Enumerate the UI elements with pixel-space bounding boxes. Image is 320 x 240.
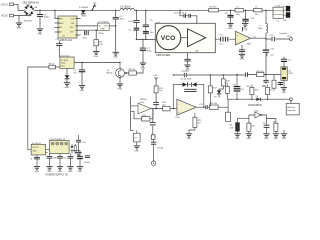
svg-text:40u: 40u: [236, 14, 239, 16]
op-amp U4: [236, 31, 251, 45]
capacitor C23: [280, 82, 282, 86]
svg-text:GND: GND: [78, 171, 83, 173]
svg-text:DB1 KBP06 4A: DB1 KBP06 4A: [23, 1, 40, 4]
capacitor C6 column: [145, 10, 146, 11]
resistor R19: [219, 75, 223, 90]
ground G24: [67, 167, 73, 170]
wire 12V rail mid: [74, 62, 120, 64]
svg-text:R5 47k: R5 47k: [210, 7, 218, 9]
svg-text:R27: R27: [252, 125, 255, 127]
main rail wire: [34, 9, 273, 11]
capacitor C14 below box: [187, 53, 189, 65]
resistor R5: [209, 9, 219, 12]
capacitor CB2: [47, 156, 53, 158]
svg-text:R26: R26: [262, 86, 265, 88]
capacitor CL1 column: [78, 135, 80, 152]
svg-text:1M: 1M: [273, 122, 276, 124]
bridge rectifier DB1: [24, 4, 34, 16]
svg-text:78L05: 78L05: [98, 33, 105, 35]
svg-text:R25: R25: [247, 86, 250, 88]
svg-text:GND: GND: [80, 90, 85, 92]
wire IC1 out: [109, 25, 116, 27]
pot CR1: [235, 122, 239, 131]
svg-text:GND: GND: [68, 171, 73, 173]
inductor L5: [235, 9, 244, 12]
resistor R22: [124, 72, 128, 74]
svg-text:GND: GND: [281, 92, 286, 94]
capacitor C11: [58, 41, 60, 57]
svg-text:GND: GND: [134, 150, 139, 152]
ground G5: [140, 63, 146, 66]
svg-text:C30: C30: [82, 142, 85, 144]
svg-text:C19: C19: [263, 123, 266, 125]
resistor R6: [49, 65, 56, 69]
wire Q2 source to ground: [119, 77, 121, 83]
svg-text:GND: GND: [118, 88, 123, 90]
svg-text:SIG: SIG: [70, 27, 74, 29]
wire to VCO box: [136, 38, 155, 40]
svg-text:1000u: 1000u: [44, 17, 51, 19]
svg-text:VCO: VCO: [287, 36, 292, 38]
svg-text:Digitale: Digitale: [280, 32, 288, 35]
capacitor CB1: [36, 155, 38, 166]
svg-text:180u: 180u: [258, 28, 262, 30]
ground G25: [77, 167, 83, 170]
svg-text:1k: 1k: [270, 90, 272, 92]
svg-text:100k: 100k: [255, 90, 259, 92]
test pad box TP2: [151, 135, 155, 140]
capacitor C16 series: [272, 37, 274, 41]
resistor R28: [267, 119, 276, 134]
svg-text:GND: GND: [228, 28, 233, 30]
VCO circle: [157, 26, 181, 50]
resistor R23: [273, 75, 275, 91]
svg-text:-: -: [237, 41, 238, 44]
capacitor CIN column: [152, 109, 154, 135]
svg-text:GND: GND: [38, 33, 43, 35]
ground G18: [263, 134, 269, 137]
top rail wire: [173, 74, 245, 76]
diode D5: [217, 90, 221, 93]
capacitor C8: [39, 10, 40, 11]
svg-text:GND: GND: [235, 138, 240, 140]
svg-text:R22 1k: R22 1k: [129, 69, 137, 71]
capacitor CF1: [184, 89, 196, 91]
capacitor C5 column: [136, 10, 137, 11]
svg-text:4u7: 4u7: [241, 89, 244, 91]
capacitor CJ: [151, 142, 156, 144]
svg-text:AMPLIFIER: AMPLIFIER: [156, 53, 170, 57]
svg-text:C13 4n7: C13 4n7: [181, 71, 189, 73]
diode D2 LED: [66, 68, 68, 82]
ground G11: [79, 86, 85, 89]
ground G19: [273, 134, 279, 137]
ground G9: [239, 54, 245, 57]
svg-text:LM2576-ADJ: LM2576-ADJ: [59, 39, 72, 42]
capacitor CB4: [68, 156, 74, 158]
wire VCO internal: [180, 37, 188, 39]
svg-text:BS170: BS170: [107, 72, 114, 74]
ground G21: [34, 167, 40, 170]
capacitor CB3: [57, 156, 63, 158]
svg-text:PB1005: PB1005: [24, 20, 33, 22]
svg-text:GND: GND: [282, 138, 287, 140]
VCO module box U3: [155, 23, 215, 52]
svg-text:GND: GND: [247, 138, 252, 140]
transistor Q2 BS170: [116, 69, 125, 78]
resistor R16: [163, 106, 170, 111]
svg-text:GND: GND: [32, 150, 37, 152]
regulator IC U1 LM2576: [58, 16, 77, 38]
capacitor C7: [142, 39, 143, 40]
capacitor CC1: [153, 102, 159, 104]
mid rail wire: [248, 74, 281, 76]
capacitor C24 top: [281, 59, 287, 61]
ground G23: [57, 167, 63, 170]
svg-text:GND: GND: [113, 57, 118, 59]
ground G13: [186, 134, 192, 137]
svg-text:+12V: +12V: [153, 75, 158, 77]
svg-text:47n: 47n: [73, 72, 76, 74]
resistor R27: [247, 123, 251, 131]
svg-text:CP500: CP500: [84, 162, 90, 164]
svg-text:GND: GND: [274, 138, 279, 140]
connector ACV2: [10, 14, 14, 17]
wire ACV1 to bridge: [14, 4, 24, 10]
digital rail wire: [228, 98, 290, 100]
svg-text:4k7: 4k7: [229, 125, 232, 127]
ground G22: [46, 167, 52, 170]
svg-text:VCO: VCO: [161, 35, 176, 42]
capacitor C17: [265, 39, 267, 75]
svg-text:Machine: Machine: [287, 107, 296, 109]
ground G1: [16, 23, 22, 26]
resistor R15: [189, 113, 195, 133]
wire left rail down: [28, 67, 49, 150]
resistor R12 feedback: [142, 117, 150, 121]
bus wire bottom: [50, 150, 81, 156]
ground G8: [184, 65, 190, 68]
ground G3: [93, 52, 99, 55]
feedback wire: [173, 85, 204, 109]
svg-text:R24 10k: R24 10k: [256, 71, 263, 73]
svg-text:D3 D4 4148: D3 D4 4148: [181, 78, 193, 80]
ground G16: [234, 134, 240, 137]
capacitor C9 C10 series: [179, 10, 180, 11]
inductor L4: [120, 8, 134, 10]
svg-text:D1 SB560: D1 SB560: [79, 7, 89, 9]
capacitor C4: [115, 10, 116, 11]
wire R22 to C7 column: [136, 69, 143, 73]
resistor R26: [267, 85, 269, 100]
box TP3: [227, 99, 229, 112]
op-amp IC2b: [138, 103, 151, 114]
capacitor C15 below U4: [241, 45, 243, 54]
svg-text:10k: 10k: [159, 90, 162, 92]
capacitor C2: [81, 62, 82, 63]
svg-text:GND: GND: [94, 56, 99, 58]
test pad TP1 box: [130, 129, 132, 131]
svg-text:10u: 10u: [270, 54, 273, 56]
svg-text:GND: GND: [101, 29, 106, 31]
svg-text:R6 1k: R6 1k: [49, 63, 55, 65]
capacitor C26: [264, 125, 270, 127]
capacitor CB5 polarized: [77, 157, 83, 159]
svg-text:GND: GND: [187, 138, 192, 140]
output coupling C and R18: [204, 106, 210, 108]
svg-text:ACV1: ACV1: [1, 2, 8, 6]
wire ACV2 to bridge: [14, 16, 29, 23]
svg-text:Inductive: Inductive: [287, 109, 296, 112]
ground G10: [64, 83, 70, 86]
resistor R21: [226, 84, 228, 99]
ground G12: [117, 84, 123, 87]
load box Machine: [286, 103, 299, 115]
svg-text:C20: C20: [233, 84, 236, 86]
svg-text:SW: SW: [70, 32, 73, 34]
svg-text:40u: 40u: [255, 14, 258, 16]
svg-text:R21: R21: [225, 83, 228, 85]
op-amp IC2a: [177, 99, 196, 115]
svg-text:C1: C1: [30, 158, 32, 160]
capacitor C21: [265, 75, 267, 84]
amplifier triangle U3a: [188, 29, 206, 47]
capacitor C13 to ground: [245, 10, 246, 11]
connector K1: [273, 7, 283, 18]
wire input rail: [131, 97, 134, 131]
resistor R30: [74, 144, 76, 154]
power flag P1: [91, 10, 92, 11]
diode D6: [256, 98, 260, 102]
svg-text:100u: 100u: [53, 157, 57, 159]
svg-text:CON: CON: [276, 5, 281, 7]
wire C4 down to ground: [115, 26, 117, 52]
wire U4 output: [251, 37, 290, 40]
svg-text:GND: GND: [59, 23, 64, 25]
svg-text:IC2a: IC2a: [175, 117, 180, 119]
diode D4: [192, 82, 196, 86]
ground G2: [37, 29, 43, 32]
capacitor C25 to gnd: [266, 53, 268, 56]
capacitor C20 stack: [236, 75, 238, 100]
svg-text:GND: GND: [240, 59, 245, 61]
filter FL1: [215, 38, 235, 40]
svg-text:L4 100uH: L4 100uH: [120, 7, 130, 9]
svg-text:R18 10k: R18 10k: [210, 103, 217, 105]
ground G14: [134, 146, 140, 149]
svg-text:14069UBCN: 14069UBCN: [248, 103, 263, 107]
resistor R3: [96, 30, 97, 31]
diode D7: [71, 144, 73, 154]
svg-text:D6: D6: [256, 96, 258, 98]
svg-text:POWER SUPPLY 5V: POWER SUPPLY 5V: [46, 174, 69, 176]
ground G4: [113, 52, 119, 55]
capacitor C3 pair: [85, 31, 89, 35]
connector ACV1: [10, 3, 14, 6]
inductor L6: [254, 9, 263, 12]
resistor R25: [251, 85, 253, 100]
svg-text:GND: GND: [61, 63, 66, 65]
capacitor C13b series: [184, 73, 186, 77]
svg-text:GND: GND: [65, 87, 70, 89]
ground G15: [281, 88, 287, 91]
triac Q1: [283, 62, 285, 87]
resistor R17: [209, 75, 211, 106]
svg-text:GND: GND: [264, 138, 269, 140]
svg-text:10k: 10k: [162, 105, 165, 107]
svg-text:C9 1n C10 1n: C9 1n C10 1n: [174, 13, 188, 15]
ground G17: [246, 134, 252, 137]
resistor R13: [154, 86, 158, 93]
wire U1 to IC1: [81, 26, 97, 30]
ground G6: [227, 24, 233, 27]
svg-text:CP500: CP500: [157, 148, 164, 150]
resistor R24: [257, 73, 264, 77]
jack J1: [151, 161, 155, 165]
ground G20: [281, 134, 287, 137]
svg-text:GND: GND: [35, 171, 40, 173]
ground G26: [75, 152, 81, 155]
wire to regulator U1: [55, 10, 58, 18]
transformer T1: [286, 6, 290, 11]
ground G7: [242, 24, 248, 27]
capacitor C19 series: [246, 72, 248, 76]
wire U4 power: [242, 27, 244, 31]
capacitor C12 to ground: [230, 10, 231, 11]
capacitor CB6: [85, 156, 90, 158]
svg-text:10u: 10u: [63, 157, 66, 159]
svg-text:ACV2: ACV2: [1, 14, 8, 18]
inductor L7: [265, 10, 266, 11]
svg-text:GND: GND: [17, 28, 22, 30]
svg-text:9V DCH: 9V DCH: [61, 60, 69, 62]
svg-text:IN OUT: IN OUT: [32, 147, 39, 149]
power flag P3: [155, 77, 158, 86]
svg-text:240: 240: [283, 20, 286, 22]
